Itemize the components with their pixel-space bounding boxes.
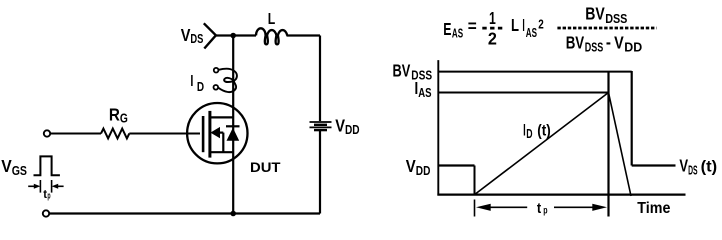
svg-text:I: I [522, 15, 524, 35]
battery VDD [310, 121, 332, 123]
svg-text:DS: DS [688, 163, 698, 177]
wire right vertical upper [319, 36, 321, 122]
resistor RG [101, 129, 129, 139]
svg-text:AS: AS [418, 86, 431, 100]
node gate input terminal [44, 130, 50, 136]
svg-text:D: D [526, 127, 532, 141]
svg-text:AS: AS [452, 27, 463, 41]
mosfet gate bar [202, 116, 205, 152]
probe VDS [204, 23, 216, 35]
mosfet channel bar [208, 111, 211, 158]
node bottom terminal [43, 210, 49, 216]
svg-text:I: I [523, 121, 526, 140]
svg-text:DS: DS [190, 32, 203, 46]
inductor L [256, 28, 287, 44]
svg-text:p: p [47, 191, 50, 201]
wire bottom horizontal [49, 212, 320, 214]
svg-text:-: - [606, 32, 611, 52]
svg-text:G: G [120, 112, 128, 126]
svg-text:DD: DD [624, 41, 642, 55]
svg-text:BV: BV [566, 33, 585, 53]
decay line [609, 93, 632, 197]
svg-text:L: L [268, 11, 276, 28]
svg-text:DSS: DSS [585, 41, 604, 55]
svg-text:1: 1 [489, 8, 496, 28]
svg-text:DD: DD [416, 164, 431, 178]
graph x axis [437, 194, 685, 196]
svg-text:BV: BV [585, 3, 605, 23]
diode cathode bar [226, 125, 240, 127]
tp arrows [476, 204, 491, 211]
mosfet source lead [210, 151, 233, 153]
graph y axis [437, 60, 439, 195]
svg-text:D: D [197, 80, 204, 94]
svg-text:BV: BV [393, 60, 411, 80]
svg-text:I: I [190, 73, 193, 90]
svg-text:=: = [468, 16, 477, 36]
svg-text:V: V [614, 33, 624, 53]
transistor DUT mosfet circle [187, 103, 247, 163]
svg-text:(t): (t) [701, 158, 718, 175]
svg-text:DD: DD [345, 123, 360, 137]
wire resistor to gate [129, 133, 200, 135]
svg-text:DUT: DUT [250, 160, 281, 175]
svg-text:DSS: DSS [605, 12, 627, 26]
VGS pulse waveform [34, 156, 60, 175]
wire drain vertical [232, 36, 234, 214]
ID ramp [475, 93, 609, 195]
svg-text:AS: AS [526, 26, 537, 40]
svg-text:(t): (t) [537, 123, 550, 140]
mosfet drain lead [210, 116, 233, 118]
BVDSS level line [439, 71, 632, 73]
IAS level line [439, 92, 609, 94]
pulse width ticks [39, 180, 41, 193]
svg-text:V: V [406, 156, 416, 176]
VDD level line [439, 164, 475, 166]
svg-text:V: V [181, 25, 191, 45]
mosfet body lead with arrow [210, 127, 220, 138]
vertical line at tp [607, 71, 609, 217]
VDD step down [474, 166, 476, 195]
svg-text:2: 2 [538, 18, 544, 32]
node junction bottom [230, 211, 236, 217]
diode triangle [227, 128, 240, 141]
wire right vertical lower [319, 131, 321, 214]
node junction top [230, 33, 236, 39]
svg-text:V: V [335, 116, 345, 136]
svg-text:R: R [109, 105, 120, 125]
wire inductor to right corner [287, 34, 321, 36]
svg-text:L: L [511, 15, 519, 35]
vertical line end of avalanche [631, 71, 633, 166]
svg-text:V: V [1, 156, 12, 176]
wire gate input to resistor [51, 133, 102, 135]
tp left tick [474, 200, 476, 217]
svg-text:GS: GS [12, 164, 27, 178]
svg-text:E: E [443, 19, 451, 39]
current probe ID clamp [214, 68, 219, 73]
svg-text:t: t [537, 200, 541, 217]
svg-text:p: p [543, 204, 547, 216]
svg-text:2: 2 [488, 28, 497, 48]
svg-text:Time: Time [637, 200, 670, 217]
svg-text:V: V [679, 155, 688, 175]
wire top horizontal [216, 34, 256, 36]
VDS tail line [632, 164, 676, 166]
pulse width arrows [28, 185, 34, 187]
